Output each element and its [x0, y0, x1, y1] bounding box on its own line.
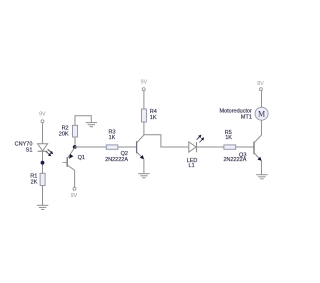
power terminal 9V top-left — [39, 111, 46, 122]
wire LED S1 cathode to R1 — [42, 151, 44, 173]
resistor R4 1K — [141, 109, 156, 122]
svg-text:L1: L1 — [189, 163, 195, 169]
svg-text:9V: 9V — [39, 111, 46, 117]
svg-text:2N2222A: 2N2222A — [223, 157, 246, 163]
power terminal 9V above motor — [257, 81, 264, 91]
node below LED S1 — [41, 161, 45, 165]
svg-text:1K: 1K — [225, 135, 232, 141]
ground above R2 — [86, 123, 97, 127]
wire R3 to Q2 base — [118, 146, 137, 148]
phototransistor Q1 — [63, 148, 85, 171]
node at R2 / Q1 / R3 junction — [73, 145, 77, 149]
wire R5 to Q3 base — [236, 146, 254, 148]
power terminal 9V below Q1 — [71, 187, 78, 199]
wire Q2 collector to R4 — [143, 122, 145, 135]
wire motor MT1 to 9V terminal — [261, 91, 263, 108]
svg-text:9V: 9V — [257, 81, 264, 87]
ground under Q2 — [138, 174, 149, 178]
svg-text:2K: 2K — [31, 180, 38, 186]
wire LED L1 to R5 — [197, 146, 224, 148]
ground under R1 — [37, 205, 48, 209]
svg-text:9V: 9V — [71, 193, 78, 199]
svg-text:S1: S1 — [26, 148, 33, 154]
resistor R2 20K — [59, 125, 78, 137]
svg-text:Q1: Q1 — [78, 155, 85, 161]
wire R1 to ground — [42, 186, 44, 206]
wire R2 top to ground — [75, 116, 91, 126]
optical sensor CNY70 S1 labels — [15, 142, 33, 154]
svg-text:2N2222A: 2N2222A — [105, 157, 128, 163]
svg-text:MT1: MT1 — [241, 114, 252, 120]
wire Q3 collector to motor MT1 — [261, 120, 263, 135]
resistor R1 2K — [30, 173, 45, 185]
transistor Q3 2N2222A — [223, 135, 261, 163]
svg-text:1K: 1K — [150, 115, 157, 121]
wire Q2 emitter to ground — [143, 159, 145, 173]
power terminal 9V above R4 — [141, 80, 148, 91]
LED L1 (diode pointing right) — [187, 142, 198, 169]
svg-text:20K: 20K — [59, 131, 69, 137]
resistor R5 1K — [224, 130, 236, 149]
LED of CNY70 S1 (diode pointing down) — [38, 144, 48, 152]
wire from 9V terminal to LED S1 anode — [42, 123, 44, 144]
light emission arrows from LED S1 — [46, 149, 53, 156]
wire R2 bottom to node — [74, 137, 76, 147]
ground under Q3 — [256, 175, 267, 179]
motor MT1 (Motoreductor) — [219, 107, 268, 120]
wire Q3 emitter to ground — [261, 161, 263, 175]
wire node to R3 — [75, 146, 107, 148]
svg-text:M: M — [258, 109, 265, 118]
wire R4 to 9V terminal — [143, 91, 145, 109]
svg-text:9V: 9V — [141, 80, 148, 86]
light emission arrows from LED L1 — [197, 135, 204, 143]
transistor Q2 2N2222A — [105, 135, 144, 163]
resistor R3 1K — [106, 130, 118, 150]
wire Q2 collector to LED L1 — [144, 135, 189, 147]
svg-text:1K: 1K — [109, 135, 116, 141]
wire Q1 emitter to 9V terminal — [74, 170, 76, 187]
